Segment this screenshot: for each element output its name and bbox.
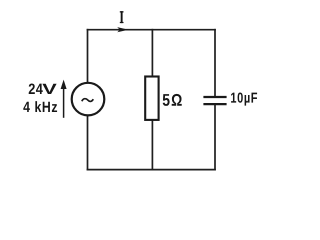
- label 24V: [28, 80, 43, 97]
- wire right vertical lower: [214, 105, 216, 169]
- svg-text:V: V: [42, 80, 57, 97]
- ac source sine tilde: [82, 99, 94, 102]
- resistor R1 box: [145, 77, 158, 120]
- svg-text:5Ω: 5Ω: [162, 92, 183, 111]
- label 4kHz: [23, 99, 58, 115]
- label I: [120, 11, 124, 23]
- wire middle vertical upper: [151, 30, 153, 77]
- wire right vertical upper: [214, 30, 216, 96]
- capacitor C1 plates: [203, 97, 226, 104]
- wire top horizontal: [88, 29, 216, 31]
- current arrow on top wire: [117, 27, 128, 32]
- source polarity arrow (up): [61, 80, 67, 118]
- svg-text:10µF: 10µF: [230, 89, 258, 106]
- wire left vertical upper: [87, 30, 89, 83]
- wire middle vertical lower: [151, 120, 153, 170]
- wire left vertical lower: [87, 116, 89, 170]
- label 10 uF: [230, 89, 258, 106]
- svg-text:4 kHz: 4 kHz: [23, 99, 58, 115]
- svg-text:24: 24: [28, 80, 43, 97]
- ac source V1 circle: [72, 83, 105, 116]
- wire bottom horizontal: [88, 169, 216, 171]
- label 5 ohm: [162, 92, 183, 111]
